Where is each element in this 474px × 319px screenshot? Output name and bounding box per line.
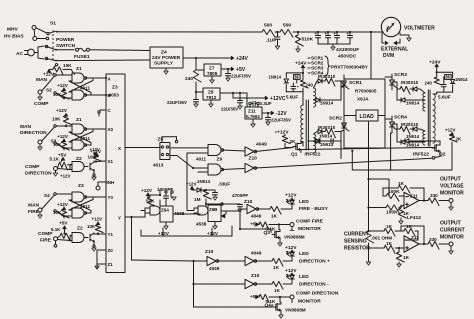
switch S3 man direction xyxy=(20,124,72,150)
svg-text:+12V: +12V xyxy=(158,231,170,236)
diode-res IR30S10 SCR1 xyxy=(314,74,342,88)
svg-text:Z0: Z0 xyxy=(108,248,114,253)
svg-text:4538: 4538 xyxy=(196,222,207,227)
LED DIRECTION- xyxy=(285,268,329,288)
capacitor 3.3UF flying xyxy=(249,101,272,107)
svg-text:500: 500 xyxy=(264,23,272,29)
op-amp Z11 LF412 b xyxy=(404,231,419,252)
svg-text:+12VC: +12VC xyxy=(270,96,286,102)
wire dir- feed xyxy=(192,261,245,285)
wire voltmeter taps xyxy=(382,33,411,43)
diode-res IR30S10 SCR2 xyxy=(314,125,342,137)
svg-text:2K: 2K xyxy=(290,139,297,144)
svg-text:MONITOR: MONITOR xyxy=(440,235,464,241)
svg-text:1K: 1K xyxy=(274,288,281,293)
svg-text:10K: 10K xyxy=(53,92,62,97)
resistor 1M xyxy=(194,190,211,205)
connector AC plug xyxy=(16,46,44,59)
pin INH xyxy=(107,180,115,185)
svg-text:LF412: LF412 xyxy=(407,215,421,221)
wire Z6A bottom xyxy=(158,222,170,236)
capacitor 22UF/35V on -12V xyxy=(266,113,292,125)
svg-text:COMP FIRE: COMP FIRE xyxy=(296,219,324,225)
optocoupler 36 left xyxy=(294,75,301,83)
terminal comp direction xyxy=(25,164,71,179)
resistor 330 op1 xyxy=(419,193,449,206)
svg-text:+12V: +12V xyxy=(90,147,101,152)
svg-text:OUTPUT: OUTPUT xyxy=(440,221,462,227)
svg-text:22UF/35V: 22UF/35V xyxy=(231,74,251,79)
capacitor 22UF/35V on +5V xyxy=(226,69,252,81)
wire to Z7 regulator xyxy=(195,63,197,66)
monostable Z6B 4538 xyxy=(196,204,221,227)
svg-text:3.3UF: 3.3UF xyxy=(260,101,272,106)
resistor 510K bleeder xyxy=(295,32,313,52)
label OUTPUT VOLTAGE MONITOR xyxy=(440,177,464,197)
switch S1 pole C xyxy=(45,57,57,61)
regulator Z8 7812 xyxy=(196,88,220,107)
resistor 1K feedback op1 xyxy=(383,181,424,200)
svg-text:Z3: Z3 xyxy=(112,85,118,91)
label SCR1-4 module xyxy=(308,56,369,77)
svg-text:DIRECTION +: DIRECTION + xyxy=(299,259,330,265)
wire to Y1 xyxy=(94,233,106,235)
capacitor 4700PF xyxy=(206,193,248,212)
diode 1N914 left driver xyxy=(269,75,289,84)
resistor 1K gnd op2 xyxy=(396,248,409,267)
svg-text:MHV: MHV xyxy=(7,27,19,33)
svg-text:LED: LED xyxy=(299,199,309,205)
fuse FUSE1 xyxy=(56,48,150,60)
svg-text:+12V: +12V xyxy=(60,174,71,179)
thyristor SCR2 xyxy=(329,116,349,134)
svg-text:FUSE1: FUSE1 xyxy=(74,54,90,60)
transistor Q1 IRF522 xyxy=(291,142,321,158)
svg-text:Z1: Z1 xyxy=(76,66,82,72)
svg-text:1N914: 1N914 xyxy=(455,77,468,82)
svg-text:+12V: +12V xyxy=(277,130,289,136)
resistor 1K op2 a xyxy=(367,224,401,236)
resistor 1K to gnd op1 xyxy=(398,205,409,224)
resistor 100K op1 lower xyxy=(367,205,404,216)
svg-text:SCR4: SCR4 xyxy=(394,115,407,121)
svg-text:Y1: Y1 xyxy=(108,232,114,237)
svg-text:FIRE: FIRE xyxy=(28,209,40,215)
inverter Z10b 4049 xyxy=(245,156,432,173)
resistor 500 second xyxy=(280,23,293,38)
svg-text:LED: LED xyxy=(299,251,309,257)
svg-text:10K: 10K xyxy=(52,117,61,122)
svg-text:LED: LED xyxy=(299,274,309,280)
pulse transformer T2 secondary upper xyxy=(423,93,425,111)
svg-text:4X2000UF: 4X2000UF xyxy=(336,47,359,53)
inverter Z10e 4049 xyxy=(245,251,272,266)
svg-text:S1: S1 xyxy=(50,21,56,27)
svg-text:MONITOR: MONITOR xyxy=(440,191,464,197)
wire latch1 to B xyxy=(85,94,106,96)
svg-text:OUTPUT: OUTPUT xyxy=(440,177,462,183)
svg-text:RESISTOR: RESISTOR xyxy=(344,246,370,252)
wire Z11 out -12V xyxy=(262,111,287,117)
capacitor 5.6UF right xyxy=(438,85,451,100)
svg-text:CURRENT: CURRENT xyxy=(440,228,466,234)
svg-text:+12V: +12V xyxy=(56,108,68,113)
resistor 100K op1 upper xyxy=(386,189,404,201)
svg-text:+24V: +24V xyxy=(429,60,441,66)
monostable Z6A 4538 xyxy=(150,190,185,222)
load LOAD box xyxy=(344,110,385,121)
gate Z1 4011 A xyxy=(72,66,87,83)
svg-text:240: 240 xyxy=(306,83,314,88)
svg-text:10K: 10K xyxy=(87,224,96,229)
svg-text:MAN: MAN xyxy=(20,124,32,130)
svg-text:IR30S10: IR30S10 xyxy=(318,74,336,79)
gate Z1 4011 C xyxy=(72,117,87,134)
wire Z5 Q to Z9 xyxy=(170,147,208,149)
resistor 2K Q2 xyxy=(449,134,462,142)
svg-text:SWITCH: SWITCH xyxy=(56,43,76,49)
capacitor 22U/35V on +12V xyxy=(221,92,243,112)
svg-text:+12V: +12V xyxy=(207,231,219,236)
inverter Z10a 4049 xyxy=(245,142,293,157)
svg-text:Z2: Z2 xyxy=(76,156,82,162)
capacitor 1000PF xyxy=(157,187,176,200)
wire Z7 out +5V xyxy=(221,67,246,73)
label +5V q4 xyxy=(250,294,260,300)
diode 1N914 Z6B xyxy=(192,179,211,192)
label +24V scr drive right xyxy=(429,60,441,78)
thyristor SCR4 xyxy=(385,115,407,134)
label +12V Z6B rc xyxy=(186,182,197,190)
terminal comp fire xyxy=(38,231,58,247)
svg-text:Z2: Z2 xyxy=(77,226,83,232)
node INH stub xyxy=(96,182,106,190)
resistor 5.1K comp fire xyxy=(51,221,72,242)
gate Z6A input xyxy=(141,206,160,215)
svg-text:+12V: +12V xyxy=(57,83,69,88)
svg-text:+12V: +12V xyxy=(285,193,297,199)
svg-text:7812: 7812 xyxy=(206,95,217,100)
pullup 10K latch3 xyxy=(87,217,103,236)
svg-text:4049: 4049 xyxy=(256,142,267,148)
wire Z5 Qbar xyxy=(170,156,208,169)
svg-text:5.6UF: 5.6UF xyxy=(438,95,451,100)
resistor 10K comp dir pullup xyxy=(88,147,102,163)
resistor .001 OHM current sense xyxy=(366,231,392,265)
pin Y1 xyxy=(108,232,114,237)
svg-text:+12V: +12V xyxy=(57,134,69,139)
svg-text:4049: 4049 xyxy=(251,251,262,256)
pin Y0 xyxy=(108,195,114,200)
label POWER SWITCH xyxy=(56,37,76,49)
svg-text:+12V: +12V xyxy=(186,182,197,187)
resistor 2K Q1 xyxy=(282,136,296,148)
svg-text:COMP: COMP xyxy=(25,164,40,170)
svg-text:CURRENT: CURRENT xyxy=(344,232,370,238)
svg-text:VN0808M: VN0808M xyxy=(285,308,306,313)
wire Y to Z6A xyxy=(132,211,146,218)
svg-text:MONITOR: MONITOR xyxy=(298,226,321,232)
svg-text:Z5: Z5 xyxy=(158,137,164,143)
pulse transformer T1 secondary lower xyxy=(314,134,316,153)
pin X1 xyxy=(108,159,114,164)
label CURRENT SENSING RESISTOR xyxy=(344,232,370,252)
switch S4 man fire xyxy=(28,193,72,218)
pulse transformer T2 primary xyxy=(433,94,435,143)
svg-text:240: 240 xyxy=(425,81,433,86)
svg-text:1N914: 1N914 xyxy=(406,101,420,106)
svg-text:IRF522: IRF522 xyxy=(413,152,429,158)
pin B xyxy=(105,93,111,98)
svg-text:100K: 100K xyxy=(388,189,400,195)
svg-text:2K: 2K xyxy=(456,137,462,142)
gate Z2 comp direction xyxy=(58,156,85,172)
svg-text:Q3: Q3 xyxy=(264,230,271,236)
label +12V Q1 gate xyxy=(275,130,289,136)
inverter Z10d 4049 xyxy=(194,249,246,271)
wire latch3 cross xyxy=(69,197,93,213)
svg-text:X1: X1 xyxy=(108,159,114,164)
pin A xyxy=(105,77,112,82)
gate Z1 4011 E xyxy=(72,183,87,202)
transistor Q4 VN0808M xyxy=(265,297,306,318)
transistor Q3 VN0808M xyxy=(264,225,305,247)
svg-text:Z4: Z4 xyxy=(161,50,167,56)
inverter Z10c 4049 xyxy=(240,199,270,219)
diode 1N914 SCR4 xyxy=(397,129,425,148)
multiplexer Z3 4053 xyxy=(106,74,125,273)
label +12V Q2 gate xyxy=(445,128,456,136)
wire 36 loop left xyxy=(286,73,303,92)
wire latch3 to Y0 xyxy=(93,196,106,198)
wire dir feed xyxy=(132,217,195,262)
resistor 1K op2 b xyxy=(401,224,418,236)
svg-text:4013: 4013 xyxy=(153,163,164,168)
snubber diode 1N914 Q2 xyxy=(402,134,433,143)
resistor 240 left driver xyxy=(300,80,313,105)
pulse transformer T1 primary xyxy=(301,100,309,150)
svg-text:1K: 1K xyxy=(403,211,410,216)
svg-text:SCR3: SCR3 xyxy=(394,72,407,78)
svg-text:1M: 1M xyxy=(194,197,201,202)
diode 1N914 SCR1 xyxy=(314,81,342,106)
transistor comp fire xyxy=(84,233,96,251)
label +12V Z6A rc xyxy=(141,188,153,196)
svg-text:Z10: Z10 xyxy=(249,156,258,162)
wire HV bus from S1 xyxy=(57,31,262,33)
svg-text:.33UF: .33UF xyxy=(218,182,230,187)
meter M1 voltmeter xyxy=(381,17,435,36)
svg-text:EXTERNAL: EXTERNAL xyxy=(381,47,408,53)
connector EXTERNAL DVM xyxy=(381,39,408,59)
svg-text:.1UF: .1UF xyxy=(266,38,276,43)
diode 1N914 SCR2 xyxy=(314,132,342,148)
svg-text:Z1: Z1 xyxy=(108,262,114,267)
svg-text:X6JA: X6JA xyxy=(357,97,369,102)
core T2 xyxy=(428,90,430,146)
svg-text:Z11: Z11 xyxy=(410,194,418,199)
svg-text:330: 330 xyxy=(430,193,438,198)
resistor 1K dir- xyxy=(272,281,292,293)
pin X0 xyxy=(108,127,114,132)
svg-text:240: 240 xyxy=(185,76,193,82)
transistor comp direction xyxy=(84,161,96,180)
svg-text:500: 500 xyxy=(283,23,291,29)
diode 1N914 right driver xyxy=(450,77,468,84)
wire Q1-Q2 source rail xyxy=(301,148,427,153)
svg-text:Z10: Z10 xyxy=(205,249,214,255)
svg-text:HV BIAS: HV BIAS xyxy=(4,34,24,40)
terminal COMP FIRE MONITOR xyxy=(290,219,324,233)
svg-text:22U/35V: 22U/35V xyxy=(221,107,238,112)
svg-text:+12V: +12V xyxy=(285,268,297,274)
svg-text:SCR2: SCR2 xyxy=(329,116,342,122)
label OUTPUT CURRENT MONITOR xyxy=(440,221,466,241)
svg-text:7805: 7805 xyxy=(207,71,218,76)
svg-text:22UF/35V: 22UF/35V xyxy=(271,118,291,123)
gate Z9 4011 a xyxy=(196,145,245,163)
svg-text:Z3: Z3 xyxy=(78,183,84,189)
svg-text:1N914: 1N914 xyxy=(406,143,420,148)
label +5V q3 xyxy=(250,222,260,228)
switch S1 power switch pole A xyxy=(49,21,58,34)
svg-text:1K: 1K xyxy=(386,241,393,246)
svg-text:+12V: +12V xyxy=(141,188,153,193)
svg-text:SCR1: SCR1 xyxy=(349,80,362,86)
module R7000605 X6JA xyxy=(344,79,385,148)
pulse transformer T1 secondary upper xyxy=(314,88,316,107)
capacitor 22UF/35V input xyxy=(167,100,199,108)
wire latch2 cross xyxy=(69,129,93,145)
wire Z8 out +12VC xyxy=(220,92,286,102)
pin Y out xyxy=(118,216,145,221)
svg-text:PRXT7006304BY: PRXT7006304BY xyxy=(331,65,369,70)
svg-text:510K: 510K xyxy=(302,37,314,43)
svg-text:Q1: Q1 xyxy=(291,152,298,158)
resistor 51K xyxy=(146,195,155,208)
svg-text:IL7662: IL7662 xyxy=(246,114,260,119)
wire bus to bleeder xyxy=(293,31,315,33)
wire AC neutral to Z4 xyxy=(56,59,150,62)
resistor 500 first xyxy=(262,23,275,38)
wire Z9 gate1 input2 xyxy=(187,153,208,210)
svg-text:1K: 1K xyxy=(273,265,280,270)
svg-text:S4: S4 xyxy=(44,193,50,198)
svg-text:4049: 4049 xyxy=(251,214,262,219)
LED FIRE-BUSY xyxy=(285,193,329,213)
inverter Z10f 4049 xyxy=(245,273,272,289)
wire latch1 cross xyxy=(69,78,93,95)
svg-text:COMP: COMP xyxy=(34,101,49,107)
svg-text:-12V: -12V xyxy=(276,111,287,117)
gate Z1 4011 B xyxy=(72,86,90,101)
resistor 5.1K q4 xyxy=(259,294,290,304)
capacitor .1UF xyxy=(266,32,280,49)
svg-text:1N914: 1N914 xyxy=(406,134,420,139)
converter Z11 L7662 xyxy=(240,93,262,127)
svg-text:1N914: 1N914 xyxy=(197,179,211,184)
resistor 5.1K comp dir xyxy=(50,153,73,171)
svg-text:5.1K: 5.1K xyxy=(50,157,60,162)
resistor 1K op2 in xyxy=(367,241,404,253)
resistor 1K fire busy xyxy=(270,206,292,219)
svg-text:DIRECTION -: DIRECTION - xyxy=(299,282,329,288)
switch S1 pole B xyxy=(45,45,57,50)
regulator Z7 7805 xyxy=(196,64,221,83)
pullup 10K HV bias xyxy=(43,63,75,77)
transistor Q2 IRF522 xyxy=(413,141,446,159)
svg-text:1N914: 1N914 xyxy=(319,134,333,139)
capacitor 5.6UF left xyxy=(286,83,300,100)
svg-text:B: B xyxy=(108,93,111,98)
svg-text:.001 OHM: .001 OHM xyxy=(371,236,392,241)
gate Z6B input xyxy=(187,206,208,215)
svg-text:DIRECTION: DIRECTION xyxy=(25,171,52,177)
svg-text:Z10: Z10 xyxy=(244,199,253,205)
svg-text:VN0808M: VN0808M xyxy=(284,235,305,240)
wire latch2 to X0 xyxy=(93,128,106,130)
gate Z1 4011 D xyxy=(72,136,90,150)
svg-text:R7000605: R7000605 xyxy=(355,89,377,94)
svg-text:10K: 10K xyxy=(63,63,72,68)
wire Z6B bottom xyxy=(207,222,219,236)
terminal COMP DIRECTION MONITOR xyxy=(290,291,339,305)
svg-text:4700PF: 4700PF xyxy=(232,193,248,198)
svg-text:Z8: Z8 xyxy=(208,90,214,95)
switch S1 gang dashed line xyxy=(52,30,54,62)
svg-text:1N914: 1N914 xyxy=(269,75,282,80)
op-amp Z11 LF412 a xyxy=(404,192,421,221)
svg-text:450VDC: 450VDC xyxy=(338,54,357,60)
pin Z0 xyxy=(97,248,113,266)
svg-text:4011: 4011 xyxy=(196,157,206,162)
svg-text:FIRE - BUSY: FIRE - BUSY xyxy=(299,206,329,212)
resistor 240 right driver xyxy=(425,77,442,94)
svg-text:Z11: Z11 xyxy=(248,109,256,114)
resistor 330 op2 xyxy=(419,237,449,249)
resistor 5.1K q3 xyxy=(259,222,290,232)
terminal output current monitor xyxy=(449,242,453,254)
svg-text:+12V: +12V xyxy=(92,217,103,222)
svg-text:VOLTAGE: VOLTAGE xyxy=(440,184,464,190)
svg-text:+12V: +12V xyxy=(445,128,456,133)
svg-text:IR30S10: IR30S10 xyxy=(318,125,336,130)
wire Z6A out to Z6B xyxy=(173,213,200,215)
svg-text:INH: INH xyxy=(107,180,115,185)
svg-text:+12V: +12V xyxy=(57,202,69,207)
capacitor .33UF xyxy=(206,182,230,201)
svg-text:+24V: +24V xyxy=(236,56,249,62)
svg-text:Z7: Z7 xyxy=(209,66,215,71)
svg-text:LOAD: LOAD xyxy=(360,114,375,120)
resistor 240 dropper xyxy=(185,58,201,93)
svg-text:COMP DIRECTION: COMP DIRECTION xyxy=(296,291,339,297)
svg-text:10K: 10K xyxy=(53,210,62,215)
svg-text:Z6A: Z6A xyxy=(161,208,170,213)
svg-text:1K: 1K xyxy=(386,224,393,229)
gate Z9 4011 b xyxy=(208,164,245,175)
svg-text:+5V: +5V xyxy=(236,67,246,73)
gate Z1 4011 F xyxy=(72,204,90,218)
svg-text:22UF/35V: 22UF/35V xyxy=(167,100,187,105)
svg-text:MAN: MAN xyxy=(28,203,40,209)
svg-text:1K: 1K xyxy=(271,214,278,219)
svg-text:X0: X0 xyxy=(108,127,114,132)
svg-text:1K: 1K xyxy=(403,255,410,260)
flip-flop Z5 4013 xyxy=(153,137,178,168)
svg-text:1N914: 1N914 xyxy=(320,101,334,106)
svg-text:24V POWER: 24V POWER xyxy=(152,55,181,61)
